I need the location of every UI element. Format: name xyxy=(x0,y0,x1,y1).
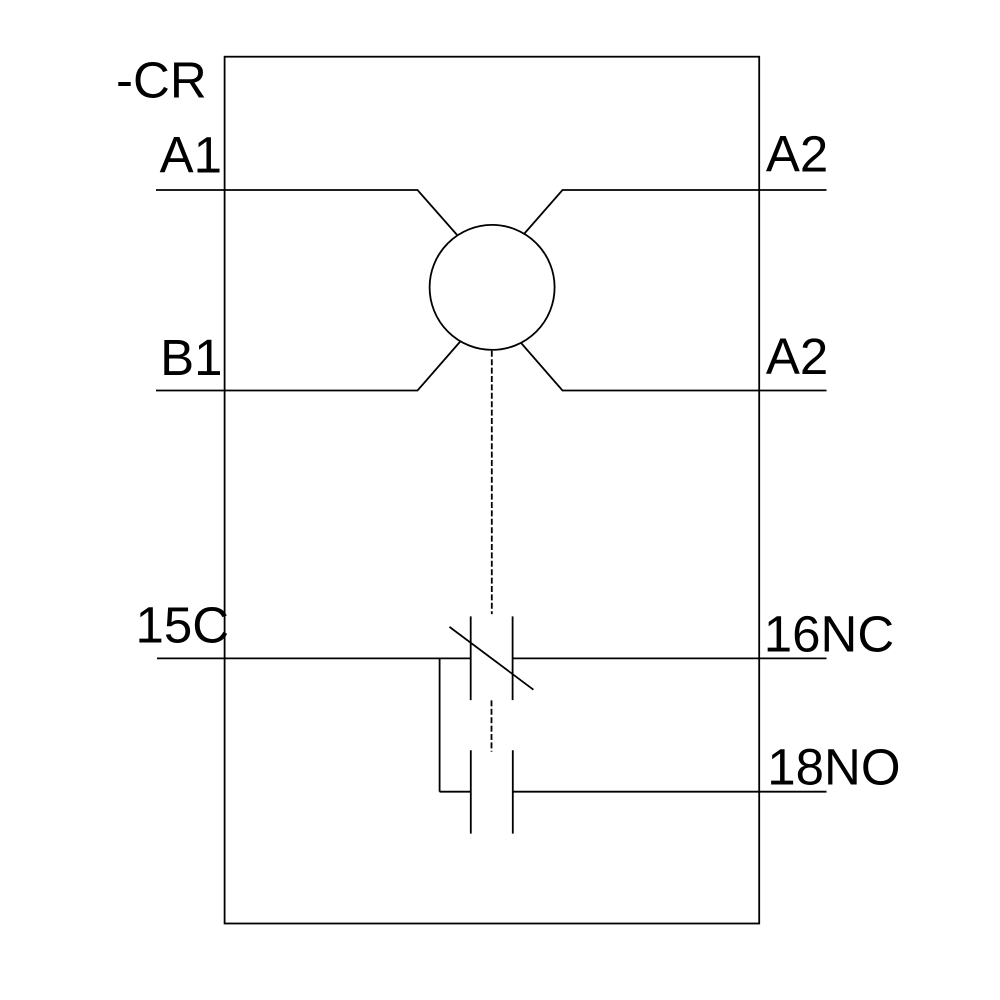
wire B1 lead xyxy=(156,331,469,390)
dashed actuator link (NC to NO contact) xyxy=(491,700,493,751)
NC contact slash xyxy=(450,627,534,690)
svg-text:B1: B1 xyxy=(160,329,222,386)
NO contact left bar xyxy=(470,750,472,833)
wire A1 lead xyxy=(156,190,465,244)
coil circle K xyxy=(430,225,555,350)
NC contact left bar xyxy=(470,616,472,700)
wire 18NO lead xyxy=(513,791,827,793)
svg-text:18NO: 18NO xyxy=(767,739,900,796)
NO contact right bar xyxy=(512,750,514,833)
NC contact right bar xyxy=(512,616,514,700)
wire 16NC lead xyxy=(513,657,827,659)
wire A2 bottom lead xyxy=(512,333,826,391)
svg-text:A1: A1 xyxy=(160,126,222,183)
svg-text:A2: A2 xyxy=(766,328,828,385)
wire NO left lead xyxy=(440,791,471,793)
svg-text:A2: A2 xyxy=(766,126,828,183)
wire vertical connector 15C to 18NO xyxy=(439,658,441,791)
wire 15C lead xyxy=(157,657,471,659)
svg-text:-CR: -CR xyxy=(116,52,207,109)
svg-text:15C: 15C xyxy=(136,597,230,654)
wire A2 top lead xyxy=(517,190,827,242)
svg-text:16NC: 16NC xyxy=(764,606,894,663)
relay outline box xyxy=(225,57,760,924)
dashed actuator link (coil to NC contact) xyxy=(491,351,493,614)
